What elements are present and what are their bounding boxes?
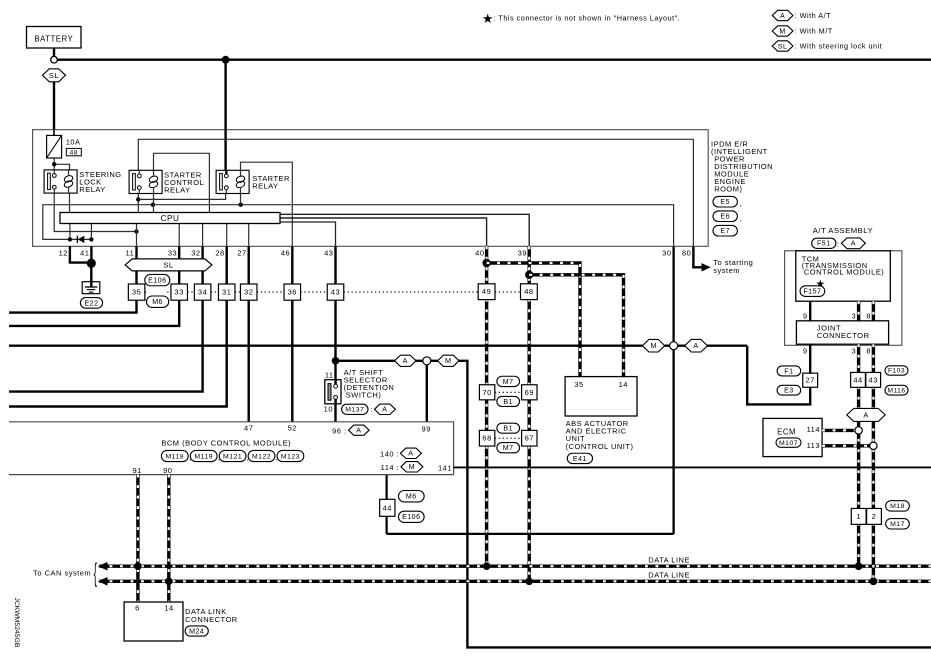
svg-text:99: 99	[422, 424, 431, 433]
svg-text:ROOM): ROOM)	[714, 184, 742, 193]
svg-text:M122: M122	[252, 453, 271, 460]
svg-text:E5: E5	[720, 199, 730, 206]
svg-text:41: 41	[80, 249, 89, 258]
svg-text:M: M	[445, 356, 452, 365]
svg-text:49: 49	[482, 287, 491, 296]
svg-text:48: 48	[524, 287, 533, 296]
svg-text:68: 68	[482, 434, 491, 443]
svg-text:M121: M121	[223, 453, 242, 460]
svg-text:70: 70	[482, 388, 491, 397]
svg-text:67: 67	[525, 434, 534, 443]
svg-text:9: 9	[803, 312, 808, 321]
svg-text:: With A/T: : With A/T	[795, 11, 832, 20]
svg-text:SL: SL	[778, 43, 787, 50]
svg-text:3: 3	[852, 346, 857, 355]
svg-text:CPU: CPU	[161, 214, 180, 223]
svg-text:32: 32	[244, 288, 253, 297]
svg-text:A: A	[693, 341, 698, 350]
svg-text:,: ,	[740, 213, 743, 222]
svg-text:3: 3	[852, 312, 857, 321]
svg-text:,: ,	[740, 199, 743, 208]
svg-text:M107: M107	[779, 440, 798, 447]
svg-text:8: 8	[866, 312, 871, 321]
svg-text:A: A	[408, 451, 413, 458]
svg-text:A: A	[403, 356, 408, 365]
svg-text:14: 14	[619, 380, 628, 389]
svg-text:27: 27	[237, 249, 246, 258]
svg-text:43: 43	[869, 375, 878, 384]
svg-text:33: 33	[168, 249, 177, 258]
svg-text:A: A	[356, 428, 361, 435]
svg-text:90: 90	[163, 466, 172, 475]
svg-text:A: A	[780, 13, 785, 20]
svg-text:RELAY: RELAY	[79, 185, 106, 194]
svg-text:CONNECTOR: CONNECTOR	[185, 615, 238, 624]
svg-text:To CAN system: To CAN system	[33, 569, 91, 578]
svg-text:M137: M137	[345, 407, 364, 414]
svg-text:E6: E6	[720, 214, 730, 221]
svg-text:F51: F51	[817, 241, 831, 248]
svg-text:M6: M6	[152, 299, 163, 306]
svg-text:F157: F157	[803, 288, 821, 295]
svg-text:F1: F1	[784, 368, 793, 375]
svg-text:33: 33	[175, 288, 184, 297]
svg-text:B1: B1	[503, 399, 513, 406]
svg-text:96 :: 96 :	[332, 426, 346, 435]
svg-text:RELAY: RELAY	[164, 186, 191, 195]
svg-text:27: 27	[806, 376, 815, 385]
svg-text:M123: M123	[281, 453, 300, 460]
svg-text:F103: F103	[888, 368, 905, 375]
svg-text:43: 43	[324, 249, 333, 258]
svg-text:40: 40	[475, 249, 484, 258]
svg-text:M: M	[779, 28, 785, 35]
svg-text:140 :: 140 :	[380, 449, 399, 458]
svg-text:RELAY: RELAY	[252, 182, 279, 191]
svg-text:11: 11	[325, 370, 334, 379]
svg-text:SL: SL	[163, 261, 173, 270]
svg-text:114: 114	[807, 425, 820, 434]
svg-text:35: 35	[574, 380, 583, 389]
svg-text:M: M	[650, 341, 657, 350]
svg-text:43: 43	[331, 288, 340, 297]
svg-text:36: 36	[288, 288, 297, 297]
svg-text:E41: E41	[573, 456, 587, 463]
svg-text:48: 48	[69, 150, 78, 157]
svg-text:31: 31	[222, 288, 231, 297]
svg-text:: With steering lock unit: : With steering lock unit	[795, 42, 883, 51]
svg-text:9: 9	[803, 346, 808, 355]
svg-text::: :	[370, 405, 373, 414]
svg-text:E22: E22	[84, 300, 98, 307]
svg-text:10A: 10A	[66, 138, 80, 147]
svg-text:M116: M116	[887, 387, 905, 394]
svg-text:: This connector is not shown: : This connector is not shown in "Harnes…	[494, 13, 681, 22]
svg-text:6: 6	[135, 604, 140, 613]
svg-text:14: 14	[164, 604, 173, 613]
svg-text:A: A	[863, 410, 868, 419]
svg-text:M118: M118	[165, 453, 184, 460]
svg-text:M7: M7	[503, 445, 514, 452]
svg-text:M7: M7	[503, 379, 514, 386]
svg-text:69: 69	[525, 388, 534, 397]
svg-text:M: M	[409, 464, 415, 471]
svg-text:39: 39	[518, 249, 527, 258]
svg-text:A/T ASSEMBLY: A/T ASSEMBLY	[813, 226, 873, 235]
svg-text:M6: M6	[406, 494, 417, 501]
svg-text:10: 10	[324, 405, 333, 414]
svg-text:52: 52	[288, 423, 297, 432]
svg-text:E3: E3	[784, 388, 794, 395]
svg-text:JCKWM5245GB: JCKWM5245GB	[13, 598, 20, 648]
svg-text:M119: M119	[194, 453, 213, 460]
svg-text:1: 1	[856, 512, 861, 521]
svg-text:A: A	[851, 241, 856, 248]
svg-text::: :	[837, 239, 840, 248]
svg-text:44: 44	[383, 503, 392, 512]
svg-text:SL: SL	[49, 71, 59, 80]
svg-text:8: 8	[866, 346, 871, 355]
svg-text:★: ★	[482, 11, 494, 26]
svg-text:114 :: 114 :	[381, 463, 400, 472]
svg-text:{: {	[94, 559, 98, 588]
svg-text:CONNECTOR: CONNECTOR	[817, 331, 870, 340]
svg-text:M24: M24	[189, 628, 204, 635]
svg-text:DATA LINE: DATA LINE	[648, 571, 690, 580]
svg-text:34: 34	[198, 288, 207, 297]
svg-text:BATTERY: BATTERY	[34, 35, 73, 44]
svg-text:CONTROL MODULE): CONTROL MODULE)	[804, 268, 884, 277]
svg-text:DATA LINE: DATA LINE	[648, 555, 690, 564]
svg-text:113: 113	[807, 441, 820, 450]
svg-text:46: 46	[281, 249, 290, 258]
svg-text:80: 80	[682, 249, 691, 258]
svg-text:11: 11	[126, 249, 135, 258]
svg-text:M17: M17	[890, 521, 905, 528]
svg-text:SWITCH): SWITCH)	[346, 390, 382, 399]
svg-text:BCM (BODY CONTROL MODULE): BCM (BODY CONTROL MODULE)	[161, 439, 291, 448]
svg-text:30: 30	[662, 249, 671, 258]
svg-text:(CONTROL UNIT): (CONTROL UNIT)	[566, 442, 634, 451]
svg-text:: With M/T: : With M/T	[795, 27, 833, 36]
svg-text:E106: E106	[148, 277, 166, 284]
svg-text:2: 2	[872, 512, 877, 521]
svg-text:47: 47	[244, 423, 253, 432]
svg-text:A: A	[382, 407, 387, 414]
svg-text:32: 32	[191, 249, 200, 258]
svg-text:E7: E7	[720, 228, 730, 235]
svg-text:E106: E106	[402, 514, 420, 521]
svg-text:28: 28	[215, 249, 224, 258]
svg-text:141: 141	[438, 463, 452, 472]
svg-text:system: system	[713, 266, 740, 275]
svg-text:12: 12	[59, 249, 68, 258]
svg-text:44: 44	[853, 375, 862, 384]
svg-text:B1: B1	[503, 426, 513, 433]
svg-text:ECM: ECM	[777, 428, 796, 437]
svg-text:35: 35	[132, 288, 141, 297]
svg-text:M18: M18	[890, 503, 905, 510]
svg-text:91: 91	[132, 466, 141, 475]
